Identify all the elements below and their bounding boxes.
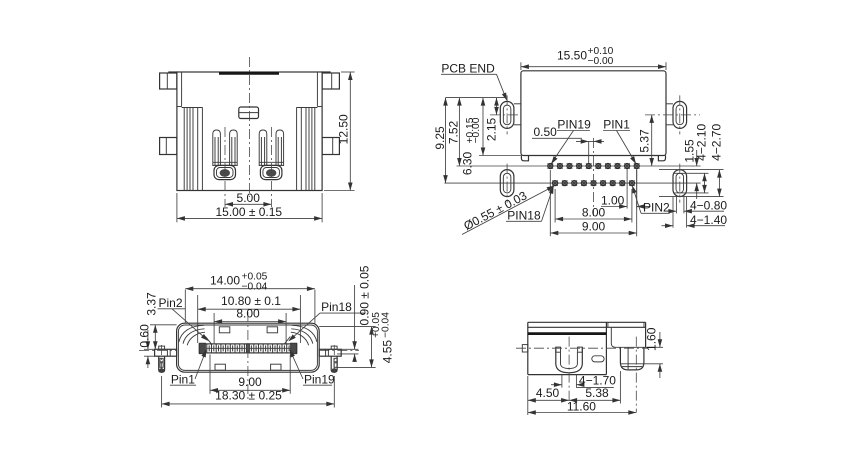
view 3: dimension 10.80 +/-0.1 [198, 294, 301, 343]
view 2: dimension 4-0.80 [667, 197, 728, 214]
svg-text:12.50: 12.50 [336, 114, 350, 144]
view 2: upper-right solder pad [645, 95, 700, 134]
svg-text:15.50: 15.50 [557, 48, 587, 62]
view 4: body outline (side view) [528, 322, 646, 374]
svg-text:15.00 ± 0.15: 15.00 ± 0.15 [215, 205, 282, 219]
svg-text:−0.00: −0.00 [471, 117, 482, 143]
svg-text:2.15: 2.15 [485, 117, 499, 141]
svg-text:4−0.80: 4−0.80 [690, 198, 727, 212]
view 3: Pin2 label [158, 296, 211, 343]
view 4: dimension 1.60 [644, 327, 663, 378]
view 1: mid-left mounting tab [160, 138, 177, 155]
view 3: left solder leg [155, 345, 177, 376]
view 1: mid-right mounting tab [322, 138, 339, 155]
view 2: top reference line [446, 97, 507, 99]
view 4: dimension 11.60 [528, 399, 637, 415]
svg-text:4.55: 4.55 [381, 340, 395, 364]
view 2: dimension 0.50 [532, 125, 604, 163]
svg-text:6.30: 6.30 [461, 151, 475, 175]
view 2: dimension 9.25 [433, 98, 448, 184]
svg-text:PIN2: PIN2 [643, 201, 670, 215]
view 2: upper-left solder pad [490, 95, 521, 134]
svg-text:−0.04: −0.04 [380, 312, 391, 338]
view 3: centerlines [139, 312, 359, 402]
view 1: left spring contact [213, 127, 237, 207]
svg-text:18.30 ± 0.25: 18.30 ± 0.25 [215, 389, 282, 403]
svg-text:7.52: 7.52 [447, 120, 461, 144]
svg-text:0.60: 0.60 [137, 324, 151, 348]
view 3: shell outline (bottom view) [177, 323, 320, 372]
view 2: dimension 1.00 [601, 169, 651, 209]
svg-text:0.90 ± 0.05: 0.90 ± 0.05 [358, 265, 372, 325]
view 1: top-right mounting tab [322, 73, 339, 89]
svg-text:8.00: 8.00 [582, 206, 606, 220]
view 2: dimension 4-2.10 [674, 124, 709, 193]
svg-text:3.37: 3.37 [145, 292, 159, 316]
view 2: lower-left solder pad [500, 164, 514, 203]
view 2: vertical centerline [593, 138, 595, 216]
view 3: dimension 18.30 +/-0.25 [162, 376, 335, 408]
svg-text:9.25: 9.25 [433, 126, 447, 150]
view 2: dimension 15.50 +0.10/-0.00 [521, 46, 666, 70]
svg-text:5.37: 5.37 [638, 129, 652, 153]
view 2: dimension 4-1.40 [662, 197, 728, 228]
view 2: dimension 9.00 [550, 170, 636, 236]
svg-text:4.50: 4.50 [536, 386, 560, 400]
view 2: dimension 5.37 [638, 115, 654, 166]
svg-text:4−1.40: 4−1.40 [690, 213, 727, 227]
view 2: PCB END label [441, 61, 509, 101]
view 3: dimension 9.00 [210, 355, 290, 394]
view 4: right solder foot (side) [620, 337, 644, 413]
svg-text:Pin2: Pin2 [159, 296, 183, 310]
svg-text:1.60: 1.60 [644, 327, 658, 351]
svg-text:PIN1: PIN1 [603, 118, 630, 132]
view 4: left contact nub [522, 345, 528, 352]
view 4: dimension 4-1.70 [551, 374, 616, 388]
view 3: dimension 8.00 [214, 306, 286, 344]
view 3: Pin18 label [287, 300, 365, 343]
view 2: dimension 7.52 [447, 98, 462, 166]
view 1: top-left mounting tab [160, 73, 177, 89]
svg-text:11.60: 11.60 [567, 399, 596, 413]
view 3: dimension 4.55 +0.05/-0.04 [319, 312, 394, 368]
view 2: dimension 6.30 +0.15/-0.00 [461, 98, 521, 176]
svg-text:9.00: 9.00 [582, 220, 606, 234]
view 2: pin row 2 (pins 18..2, 9 holes) [444, 180, 700, 185]
svg-text:5.38: 5.38 [585, 386, 609, 400]
svg-text:−0.04: −0.04 [242, 281, 268, 292]
view 2: dimension 4-2.70 [659, 124, 724, 197]
view 3: right solder leg [319, 345, 341, 376]
view 3: Pin1 label [170, 348, 209, 386]
view 1: dimension 15.00 +/-0.15 [177, 193, 322, 222]
svg-text:5.00: 5.00 [237, 191, 261, 205]
view 3: top edge notches [219, 327, 277, 333]
view 1: dimension 12.50 [324, 72, 355, 191]
svg-text:PCB END: PCB END [441, 61, 495, 75]
svg-text:Pin18: Pin18 [321, 300, 352, 314]
view 1: dimension 5.00 [225, 191, 271, 207]
view 1: right spring contact [259, 127, 283, 207]
view 3: Pin19 label [287, 348, 335, 386]
view 2: PIN19 label [549, 118, 591, 166]
svg-text:9.00: 9.00 [238, 375, 262, 389]
view 1: vertical centerline [248, 57, 250, 197]
view 2: lower-right solder pad [673, 164, 687, 203]
svg-text:−0.00: −0.00 [588, 56, 614, 67]
svg-text:PIN18: PIN18 [507, 209, 541, 223]
view 2: dimension 1.55 [683, 139, 700, 199]
view 3: dimension 0.60 [137, 324, 158, 368]
view 4: side slot [592, 356, 604, 362]
view 3: right corner fold arcs [284, 325, 317, 345]
view 4: U-shaped solder lug (side) [556, 337, 583, 402]
view 2: PIN2 label [630, 185, 670, 215]
svg-text:Pin19: Pin19 [304, 372, 335, 386]
view 2: PIN1 label [603, 118, 638, 166]
view 3: dimension 3.37 [145, 292, 177, 349]
svg-text:PIN19: PIN19 [557, 118, 591, 132]
view 3: dimension 14.00 +0.05/-0.04 [185, 271, 315, 323]
view 3: bottom edge notches [215, 364, 281, 370]
view 4: horizontal centerline [516, 347, 648, 349]
view 2: dimension 2.15 [485, 98, 499, 142]
svg-text:14.00: 14.00 [210, 273, 240, 287]
view 2: label dia 0.55 +/-0.03 [461, 184, 555, 235]
view 1: center boss [239, 107, 259, 119]
view 4: dimension 5.38 [569, 371, 620, 404]
view 2: shell outline (top view) [521, 71, 666, 161]
view 3: dimension 0.90 +/-0.05 [337, 265, 371, 362]
view 1: front view body outline [168, 72, 330, 191]
svg-text:8.00: 8.00 [236, 306, 260, 320]
view 3: left corner fold arcs [179, 325, 212, 345]
svg-text:Pin1: Pin1 [171, 372, 195, 386]
view 2: pin row 1 (pins 19..1, 10 holes) [457, 163, 701, 168]
view 2: PIN18 label [506, 185, 556, 223]
svg-text:4−2.70: 4−2.70 [709, 124, 723, 161]
view 4: dimension 4.50 [528, 376, 569, 415]
svg-text:4−2.10: 4−2.10 [695, 124, 709, 161]
svg-text:0.50: 0.50 [534, 125, 558, 139]
view 2: dimension 8.00 [555, 189, 632, 223]
view 2: pad-to-shell step lines [514, 104, 673, 125]
view 3: contact ladder strip [199, 343, 296, 354]
